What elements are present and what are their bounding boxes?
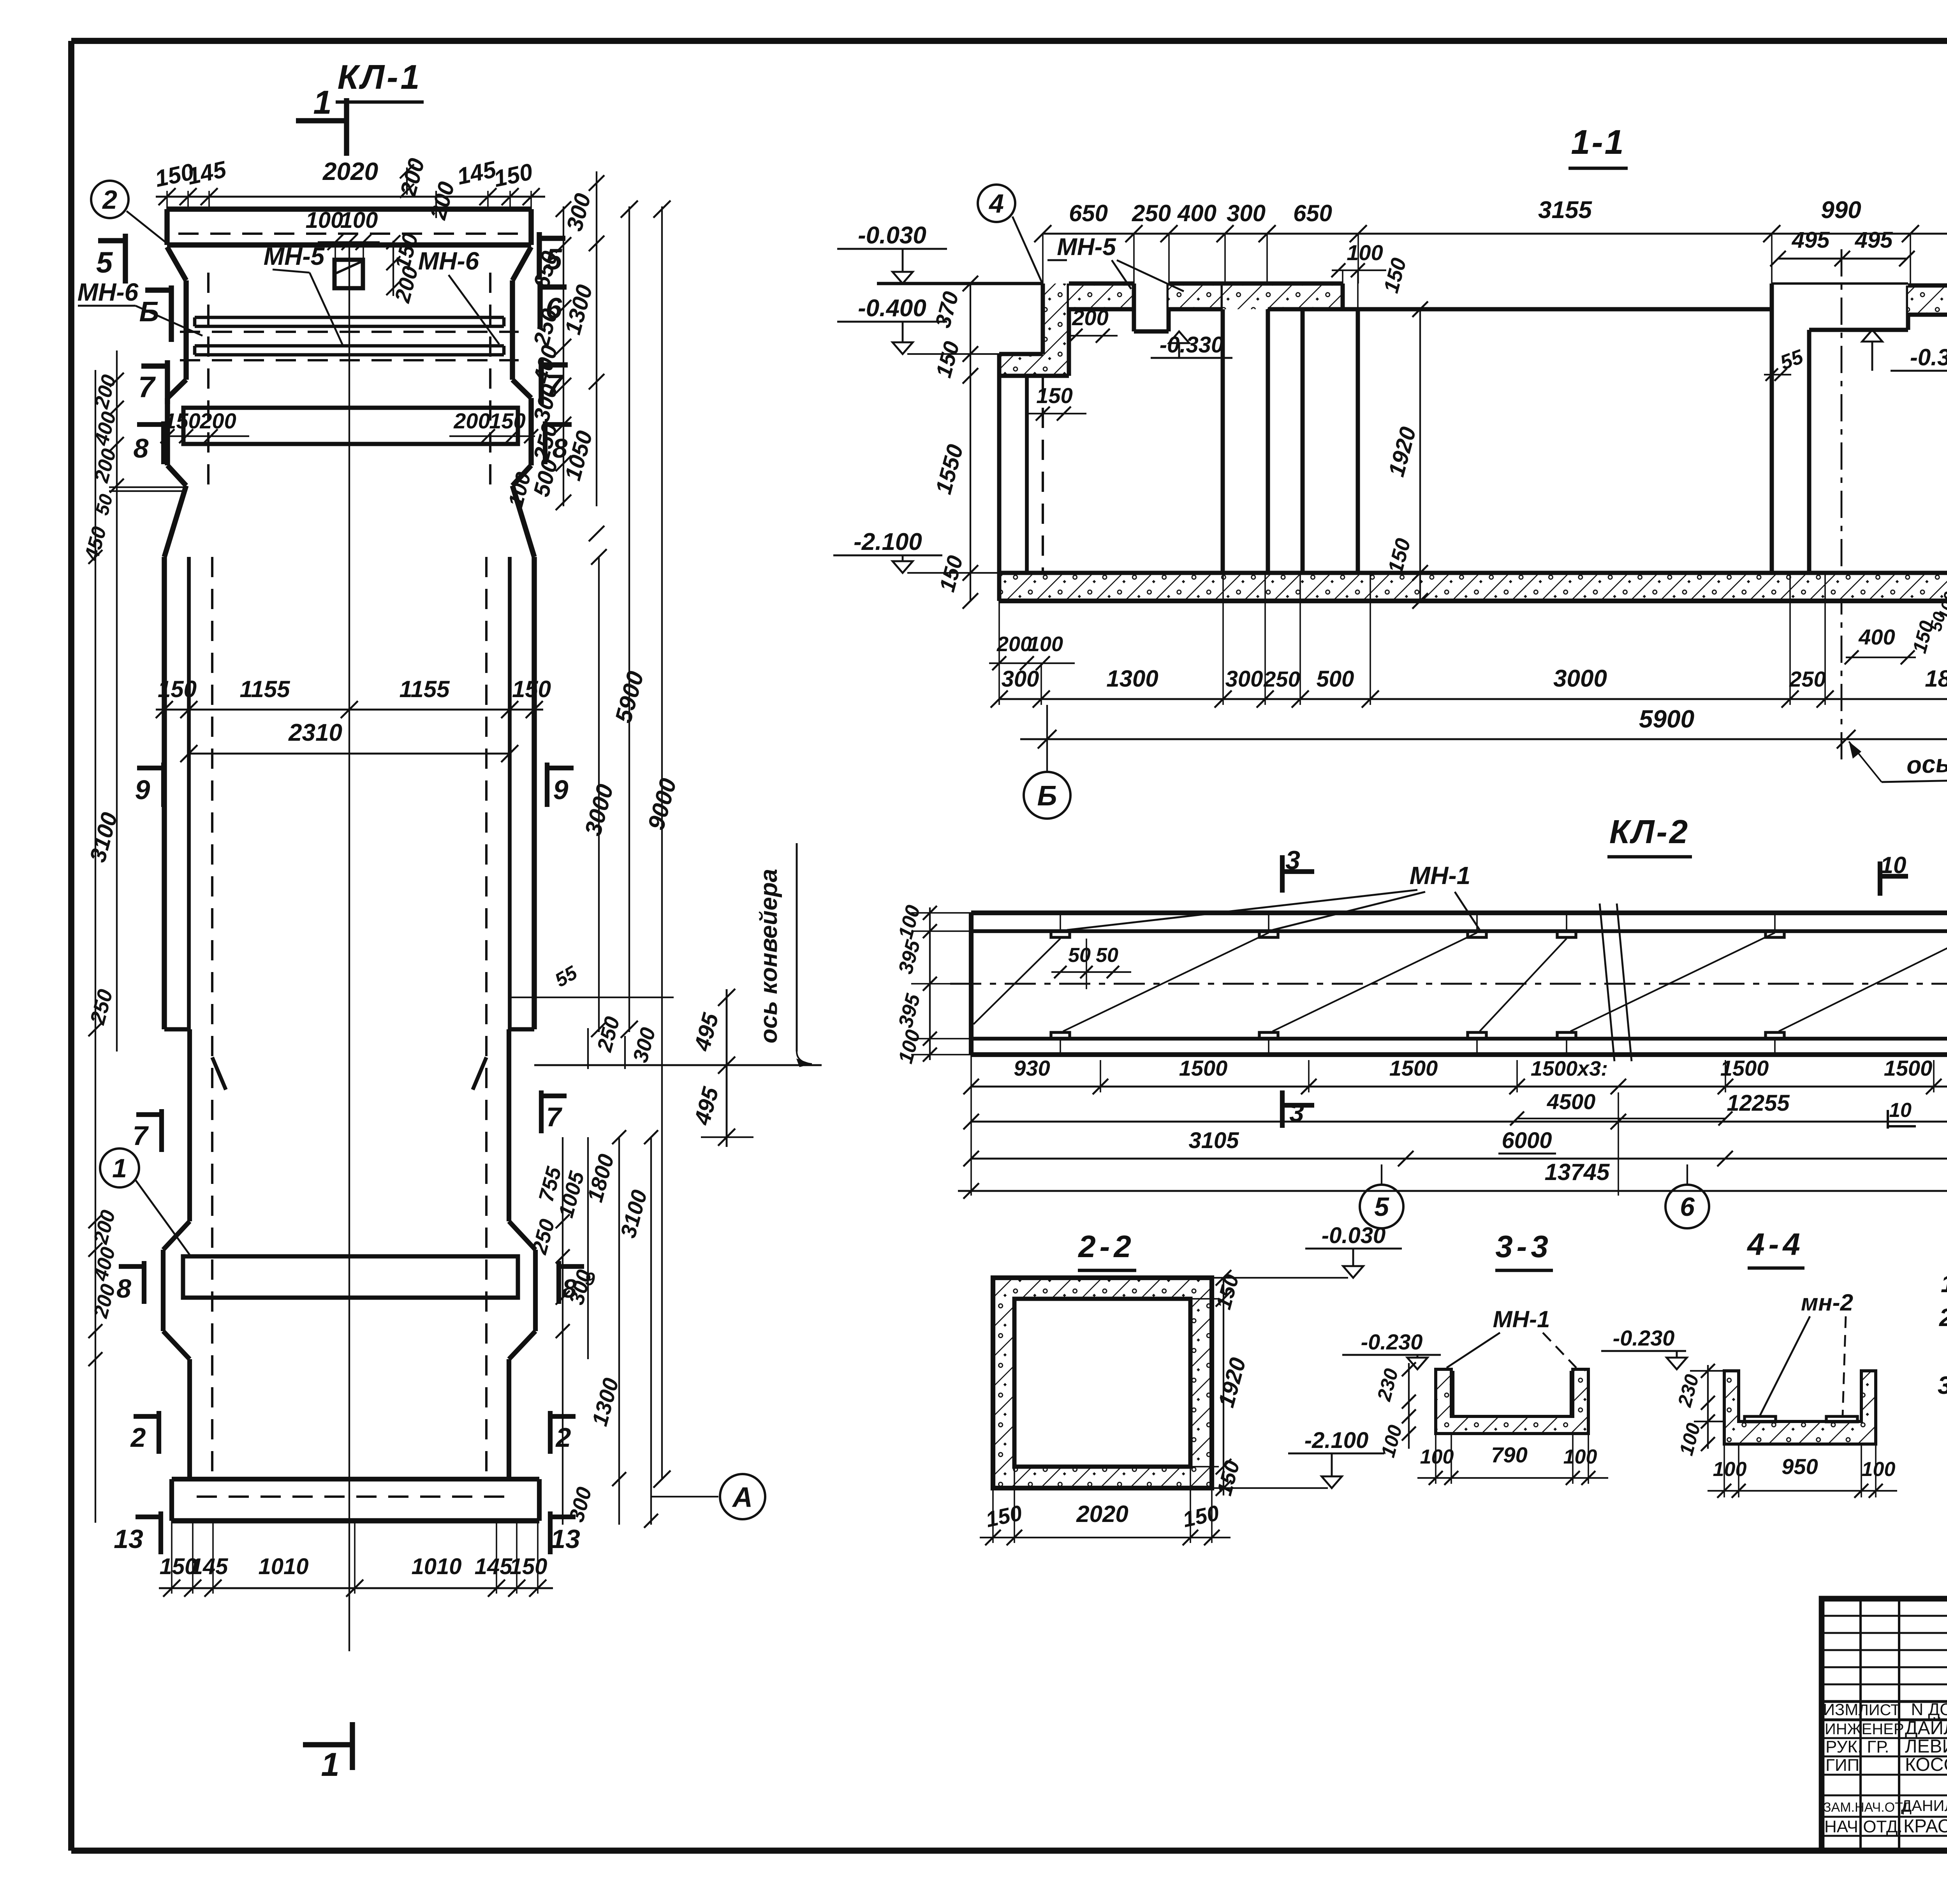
KL-2 channel outline top [971, 907, 1947, 913]
svg-text:1-1: 1-1 [1571, 123, 1625, 161]
1-1 left wall hatched [999, 284, 1069, 376]
KL-2 dim 50 50 [1051, 939, 1131, 989]
4-4 right rotated dims [1673, 1364, 1715, 1458]
svg-text:1: 1 [321, 1746, 339, 1783]
svg-text:-0.330: -0.330 [1910, 344, 1947, 370]
svg-text:КЛ-1: КЛ-1 [338, 58, 422, 96]
KL-1 center hatch detail [334, 260, 363, 288]
svg-text:300: 300 [1002, 666, 1039, 692]
svg-text:5900: 5900 [1639, 705, 1694, 733]
svg-text:3: 3 [1285, 845, 1300, 875]
svg-text:1500х3:: 1500х3: [1531, 1057, 1608, 1080]
title block left rows [1822, 1616, 1947, 1836]
1-1 top slab piece 2 [1169, 284, 1223, 309]
svg-text:2: 2 [130, 1422, 146, 1453]
KL-2 dim row 1 [963, 1055, 1947, 1094]
section flag 3 bottom [1282, 1090, 1314, 1128]
svg-text:5: 5 [1374, 1192, 1389, 1222]
svg-text:МН-6: МН-6 [77, 278, 139, 306]
dims 200 150 on band right [449, 409, 538, 443]
svg-text:100: 100 [340, 208, 378, 233]
section flag 5 left [96, 234, 125, 284]
svg-text:300: 300 [1227, 200, 1266, 226]
svg-text:ДАНИЛЕВСКИЙ: ДАНИЛЕВСКИЙ [1901, 1797, 1947, 1814]
svg-text:100: 100 [1420, 1446, 1454, 1468]
svg-text:100: 100 [1028, 632, 1063, 656]
KL-2 vertical extensions [971, 1070, 1947, 1196]
1-1 dim 100 at slab end [1331, 240, 1386, 311]
svg-text:100: 100 [1347, 240, 1383, 265]
section 3-3 title [1495, 1229, 1553, 1270]
section 1-1 title [1569, 123, 1628, 168]
KL-2 dim row 4 [958, 1159, 1947, 1199]
KL-2 inner top line [971, 921, 1947, 931]
svg-text:2-2: 2-2 [1077, 1229, 1135, 1264]
svg-text:500: 500 [1317, 666, 1354, 692]
KL-1 view title [336, 58, 424, 102]
KL-1 left step outline [167, 380, 186, 486]
svg-text:-0.030: -0.030 [858, 222, 926, 249]
KL-2 dim row 3 [963, 1128, 1947, 1166]
1-1 grade line left [877, 282, 1043, 285]
svg-text:930: 930 [1014, 1056, 1050, 1080]
KL-1 strip dashed upper [180, 331, 519, 333]
KL-1 conveyor axis line [510, 997, 822, 1137]
row gip [1826, 1754, 1947, 1775]
svg-text:-0.230: -0.230 [1361, 1330, 1423, 1354]
KL-1 flange hidden line [197, 1495, 514, 1498]
section flag 13 left [114, 1511, 161, 1554]
svg-text:13745: 13745 [1545, 1159, 1610, 1185]
svg-text:3. Каналы К-1, К-2 выполнять и: 3. Каналы К-1, К-2 выполнять из бетона [1938, 1371, 1947, 1399]
level -0.330 at notch [1151, 331, 1232, 358]
section 3-3 channel [1436, 1369, 1588, 1434]
svg-text:50: 50 [1096, 944, 1118, 967]
svg-text:-0.330: -0.330 [1160, 332, 1223, 358]
KL-1 lower right rotated dims [528, 1130, 658, 1528]
1-1 rot dims 1920 150 [1384, 301, 1428, 609]
svg-text:250: 250 [1132, 200, 1171, 226]
row inzhener [1825, 1717, 1947, 1738]
1-1 right wall of chamber [1772, 309, 1809, 573]
section flag 8 right lower [559, 1261, 595, 1304]
3-3 left rotated dims [1373, 1362, 1416, 1460]
section flag 8 left [134, 421, 164, 464]
svg-text:ИЗМ: ИЗМ [1823, 1700, 1859, 1719]
section mark 1 bottom [303, 1722, 352, 1783]
dim 200 rot top right [395, 156, 430, 199]
level -0.030 at 2-2 [1212, 1223, 1402, 1278]
dim 100 100 at center detail [306, 208, 380, 304]
svg-text:НАЧ.ОТД.: НАЧ.ОТД. [1824, 1817, 1903, 1836]
KL-1 centerline [349, 241, 350, 1651]
level -2.100 [833, 528, 999, 573]
svg-text:13: 13 [551, 1524, 580, 1554]
section flag 8 left lower [116, 1261, 144, 1304]
svg-text:145: 145 [475, 1554, 513, 1579]
svg-text:-2.100: -2.100 [1304, 1428, 1368, 1453]
svg-text:3155: 3155 [1538, 197, 1592, 224]
KL-1 right chain extension lines [95, 171, 662, 1523]
callout circle 2 [91, 181, 167, 243]
svg-text:1500: 1500 [1720, 1056, 1769, 1080]
svg-text:650: 650 [1293, 200, 1332, 226]
svg-text:100: 100 [306, 208, 343, 233]
axis circle B [1024, 705, 1070, 819]
svg-text:150: 150 [512, 676, 551, 702]
KL-2 left end [969, 913, 974, 1055]
axis circle 6 [1665, 1164, 1709, 1228]
svg-text:-0.030: -0.030 [1322, 1223, 1385, 1248]
KL-1 lower bulge right [509, 1221, 535, 1359]
dim 2310 [180, 719, 518, 762]
KL-1 bottom flange [172, 1479, 539, 1521]
svg-text:1500: 1500 [1389, 1056, 1438, 1080]
svg-text:7: 7 [546, 1102, 563, 1132]
label MN-2 at 4-4 [1760, 1289, 1853, 1415]
svg-text:ЛЕВИНА: ЛЕВИНА [1905, 1736, 1947, 1757]
svg-text:1155: 1155 [239, 676, 290, 702]
svg-text:1800: 1800 [1925, 666, 1947, 692]
svg-text:6: 6 [1680, 1192, 1695, 1222]
svg-text:-0.400: -0.400 [858, 295, 926, 322]
1-1 dim 495 495 [1770, 227, 1915, 266]
svg-text:495: 495 [1792, 227, 1830, 253]
svg-text:ЛИСТ: ЛИСТ [1859, 1701, 1900, 1719]
svg-text:МН-5: МН-5 [1057, 234, 1116, 261]
KL-1 below band walls [190, 1359, 509, 1479]
svg-text:100: 100 [1713, 1458, 1747, 1481]
svg-text:РУК. ГР.: РУК. ГР. [1826, 1737, 1889, 1756]
KL-1 strip dashed lower [180, 359, 519, 361]
KL-1 strip MN-5 upper [195, 317, 504, 326]
svg-text:13: 13 [114, 1524, 143, 1554]
3-3 bottom dims [1417, 1434, 1608, 1485]
svg-text:8: 8 [134, 433, 149, 463]
4-4 bottom dims [1708, 1444, 1897, 1498]
svg-text:4: 4 [988, 189, 1004, 218]
section flag 9 right [547, 763, 574, 807]
svg-text:200: 200 [1072, 305, 1108, 330]
left rotated dims of 1-1 [930, 276, 978, 609]
svg-text:А: А [732, 1482, 753, 1513]
callout circle 1 [100, 1148, 191, 1256]
label MN-6 left [77, 278, 202, 336]
KL-1 head band outline [167, 209, 531, 245]
KL-1 mid body outer walls [164, 557, 534, 1029]
section 2-2 title [1077, 1229, 1136, 1270]
1-1 rot dim 150 slab [1379, 255, 1411, 296]
KL-2 centerline [950, 983, 1947, 985]
KL-1 lower neck outer [190, 1029, 509, 1221]
section flag 5 right [539, 232, 565, 280]
1-1 dim 150 below wall [1028, 383, 1086, 421]
label MN-5 [264, 242, 343, 345]
svg-text:150: 150 [1036, 383, 1072, 408]
svg-text:-2.100: -2.100 [854, 528, 922, 555]
KL-1 neck outer walls [186, 280, 512, 380]
svg-text:9: 9 [135, 775, 150, 805]
svg-text:3105: 3105 [1188, 1128, 1239, 1153]
svg-text:5: 5 [96, 246, 113, 279]
label MN-1 [974, 861, 1947, 1031]
KL-2 dim row 2 [963, 1090, 1947, 1129]
1-1 pit ceiling line [1772, 282, 1908, 285]
svg-text:200: 200 [996, 632, 1032, 656]
svg-text:КРАСАВИН: КРАСАВИН [1903, 1816, 1947, 1837]
svg-text:6000: 6000 [1502, 1128, 1552, 1153]
section mark 1 top [296, 84, 347, 156]
svg-text:1500: 1500 [1179, 1056, 1228, 1080]
KL-1 right step outline [512, 380, 531, 486]
1-1 top dim row [1034, 197, 1947, 357]
1-1 top slab right of pit [1908, 285, 1947, 315]
title block outer [1822, 1599, 1947, 1851]
KL-2 inner bottom line [971, 1039, 1947, 1054]
KL-1 lower bulge left [163, 1221, 190, 1359]
KL-1 strip MN-6 lower [195, 346, 504, 355]
svg-text:Б: Б [1037, 780, 1057, 812]
svg-text:-0.230: -0.230 [1613, 1326, 1675, 1350]
KL-2 dim 4500 [1510, 1089, 1732, 1125]
label os konveyera vertical [755, 843, 812, 1067]
section flag 8 right [545, 421, 572, 464]
svg-text:ДАЙЛИДА: ДАЙЛИДА [1905, 1717, 1947, 1738]
level -2.100 at 2-2 [1212, 1428, 1384, 1488]
KL-2 left rotated dims [894, 903, 971, 1066]
1-1 bottom dim row small [989, 632, 1075, 670]
1-1 dim 400 at footing [1845, 590, 1947, 664]
KL-1 right chain rotated dims tall [580, 201, 681, 1488]
level -0.030 [837, 222, 947, 284]
section 4-4 title [1746, 1227, 1804, 1268]
KL-2 view title [1607, 814, 1692, 857]
KL-1 bottom dims 150 145 1010 1010 145 150 [159, 1521, 553, 1597]
level -0.230 at 3-3 [1342, 1330, 1441, 1369]
KL-1 head hidden edge [178, 232, 520, 235]
section flag 10 top [1880, 852, 1908, 896]
KL-1 cross band 8-8 [183, 408, 518, 444]
row nach otd [1824, 1816, 1947, 1837]
svg-text:250: 250 [1263, 667, 1300, 691]
callout circle 4 [978, 185, 1042, 283]
svg-text:мн-2: мн-2 [1801, 1289, 1853, 1316]
svg-text:400: 400 [1858, 625, 1895, 649]
svg-text:2020: 2020 [322, 157, 378, 185]
KL-1 top dims 150 145 2020 145 150 [153, 156, 545, 209]
svg-text:N ДОКУМ.: N ДОКУМ. [1911, 1700, 1947, 1719]
2-2 right rotated dims [1190, 1270, 1251, 1498]
1-1 top notch duct [1134, 284, 1169, 331]
svg-text:250: 250 [1789, 667, 1826, 691]
svg-text:ГИП: ГИП [1826, 1756, 1859, 1775]
svg-text:1010: 1010 [258, 1554, 308, 1579]
1-1 big chamber ceiling [1343, 307, 1772, 312]
svg-text:1. Маркировка каналов на листе: 1. Маркировка каналов на листе КЖ-4 [1941, 1270, 1947, 1298]
section flag 3 top [1282, 845, 1314, 893]
label MN-5 on 1-1 [1047, 234, 1184, 291]
svg-text:2: 2 [102, 185, 117, 215]
1-1 top slab piece 3 [1223, 284, 1343, 309]
svg-text:МН-5: МН-5 [264, 242, 325, 270]
1-1 conveyor pit [1772, 284, 1908, 330]
dim 200 head right [425, 179, 459, 222]
row ruk gr [1826, 1736, 1947, 1757]
svg-text:МН-6: МН-6 [418, 247, 479, 275]
section flag 7 right lower [541, 1090, 567, 1133]
svg-text:1: 1 [112, 1154, 127, 1183]
KL-1 neck hidden lines [208, 273, 490, 487]
1-1 dim row 5900 3100 [1020, 705, 1947, 749]
svg-text:650: 650 [1069, 200, 1108, 226]
notes text [1938, 1270, 1947, 1433]
svg-text:950: 950 [1782, 1454, 1818, 1479]
svg-text:1500: 1500 [1884, 1056, 1933, 1080]
KL-1 right chain rotated dims upper [504, 175, 604, 541]
svg-text:Б: Б [139, 296, 159, 328]
row zam nach otd [1823, 1797, 1947, 1815]
1-1 dim 200 near notch [1069, 305, 1118, 343]
svg-text:3-3: 3-3 [1495, 1229, 1552, 1264]
svg-text:КЛ-2: КЛ-2 [1609, 814, 1690, 851]
KL-1 mid hidden lines [212, 557, 486, 1476]
svg-text:50: 50 [1068, 944, 1091, 967]
KL-1 mid body inner walls [189, 557, 510, 1029]
KL-1 head shoulders [167, 247, 531, 280]
axis circle A right [651, 1474, 765, 1519]
section flag 2 left [130, 1411, 159, 1454]
svg-text:1010: 1010 [411, 1554, 461, 1579]
svg-text:1300: 1300 [1106, 666, 1158, 692]
KL-1 taper tick lines [109, 487, 187, 491]
svg-text:2. Армирование каналов по сече: 2. Армирование каналов по сечениям [1939, 1303, 1947, 1332]
dim 495 495 vertical right [689, 989, 735, 1147]
svg-text:10: 10 [1889, 1099, 1912, 1122]
1-1 top slab left piece [1069, 284, 1134, 309]
1-1 dim 55 right wall [1764, 345, 1806, 381]
svg-text:КОССКО: КОССКО [1905, 1754, 1947, 1775]
KL-1 lower band 9-9 [183, 1256, 518, 1298]
svg-text:100: 100 [1563, 1446, 1597, 1468]
level -0.230 at 4-4 [1601, 1326, 1724, 1421]
section flag 7 left lower [133, 1109, 162, 1152]
svg-text:495: 495 [1855, 227, 1893, 253]
1-1 interior lines mid [1303, 309, 1358, 573]
KL-1 taper outlines [164, 486, 534, 557]
4-4 anchor plates [1745, 1416, 1857, 1422]
section flag 6 right [540, 281, 567, 329]
section flag 9 left [135, 763, 164, 807]
section flag 7 right [541, 359, 568, 404]
1-1 bottom dim row [991, 573, 1947, 708]
svg-text:150: 150 [158, 676, 197, 702]
KL-1 lower step stubs [164, 1027, 534, 1032]
svg-text:ИНЖЕНЕР: ИНЖЕНЕР [1825, 1721, 1904, 1738]
svg-text:4500: 4500 [1547, 1089, 1596, 1114]
svg-text:МН-1: МН-1 [1493, 1306, 1550, 1332]
section 2-2 box [993, 1278, 1212, 1488]
dims 150 200 on band left [160, 409, 249, 443]
svg-text:990: 990 [1821, 197, 1861, 224]
svg-text:3000: 3000 [1553, 665, 1607, 692]
svg-text:300: 300 [1225, 666, 1263, 692]
axis circle 5 [1360, 1164, 1403, 1228]
svg-text:7: 7 [138, 371, 156, 404]
KL-2 break line [1600, 904, 1632, 1061]
svg-text:МН-1: МН-1 [1410, 861, 1470, 889]
1-1 conveyor axis dashdot [1841, 249, 1843, 759]
svg-text:3: 3 [1289, 1098, 1304, 1127]
svg-text:200: 200 [453, 409, 490, 433]
KL-2 anchor tabs bottom [1051, 1032, 1947, 1054]
header cells text [1823, 1700, 1947, 1719]
label os konveyera at 1-1 [1849, 742, 1947, 782]
svg-text:ЗАМ.НАЧ.ОТД: ЗАМ.НАЧ.ОТД [1823, 1800, 1912, 1815]
KL-2 anchor tabs top [1051, 913, 1947, 937]
section flag 2 right [550, 1411, 576, 1454]
svg-text:150: 150 [164, 409, 200, 433]
svg-text:2310: 2310 [288, 719, 342, 746]
svg-text:2020: 2020 [1076, 1501, 1128, 1527]
svg-text:400: 400 [1177, 200, 1216, 226]
label MN-6 right [418, 247, 499, 344]
section flag 7 left [138, 360, 167, 404]
svg-text:145: 145 [190, 1554, 229, 1579]
svg-text:100: 100 [1862, 1458, 1896, 1481]
section 4-4 channel [1724, 1371, 1876, 1444]
svg-text:790: 790 [1491, 1443, 1527, 1467]
svg-text:ось конвейера: ось конвейера [755, 869, 782, 1043]
svg-text:4-4: 4-4 [1746, 1227, 1804, 1261]
KL-2 channel outline bottom [971, 1055, 1947, 1070]
1-1 left wall below [999, 376, 1043, 573]
level -0.330 at pit [1862, 330, 1947, 371]
level -0.400 [837, 295, 999, 354]
svg-text:10: 10 [1880, 852, 1907, 878]
1-1 floor slab [999, 573, 1947, 601]
svg-text:9: 9 [553, 775, 569, 805]
section flag B left [139, 285, 171, 342]
svg-text:7: 7 [133, 1120, 149, 1151]
svg-text:12255: 12255 [1727, 1090, 1790, 1116]
2-2 bottom dims [980, 1467, 1231, 1545]
label MN-1 at 3-3 [1447, 1306, 1576, 1368]
KL-1 left chain rotated dims [80, 372, 124, 1366]
dims 150 1155 1155 150 [156, 676, 551, 718]
rotated dims 150 200 right of detail [386, 231, 423, 306]
dims 55 250 300 near lower right [551, 962, 660, 1069]
title block column lines [1861, 1599, 1947, 1851]
svg-text:1155: 1155 [399, 676, 450, 702]
svg-text:150: 150 [510, 1554, 547, 1579]
svg-text:1: 1 [313, 84, 331, 121]
KL-1 lower inner taper [212, 1057, 486, 1090]
section flag 13 right [550, 1511, 580, 1554]
1-1 interior wall A [1223, 284, 1268, 573]
